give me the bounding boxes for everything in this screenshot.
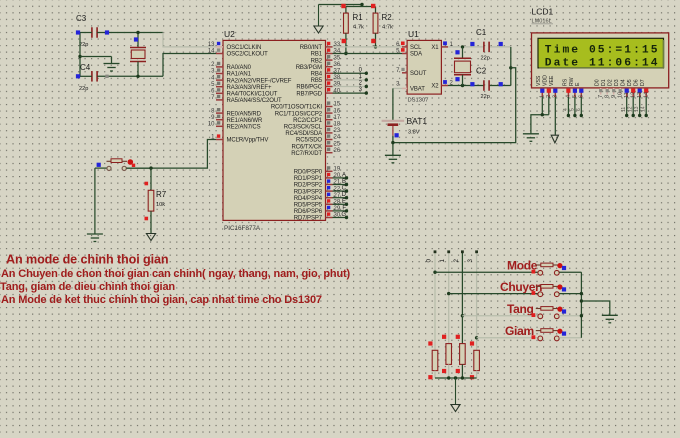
U2 pin 20 RD1/PSP1	[326, 177, 333, 179]
svg-text:An Mode de ket thuc chinh thoi: An Mode de ket thuc chinh thoi gian, cap…	[1, 294, 322, 306]
svg-text:4.7k: 4.7k	[382, 25, 393, 31]
ground VEE (arrow)	[551, 135, 558, 143]
wire MCLR net	[126, 140, 216, 169]
wire button Giam to rail	[559, 337, 581, 339]
svg-text:RC3/SCK/SCL: RC3/SCK/SCL	[284, 125, 323, 131]
U2 pin 8 RE0/AN5/RD	[216, 112, 223, 114]
svg-text:14: 14	[641, 106, 647, 112]
U2 pin 38 RB5	[326, 79, 333, 81]
svg-text:RB6/PGC: RB6/PGC	[296, 85, 322, 91]
U2 pin 37 RB4	[326, 72, 333, 74]
wire row to button Mode	[435, 271, 538, 273]
svg-text:D4: D4	[621, 79, 627, 86]
svg-text:RD3/PSP3: RD3/PSP3	[294, 189, 323, 195]
wire column net 3	[476, 252, 478, 351]
svg-text:VBAT: VBAT	[410, 87, 425, 93]
wire row to button Tang	[462, 315, 538, 317]
wire rail to ground	[581, 301, 609, 315]
svg-text:X1: X1	[431, 45, 439, 51]
ground below resistors (arrow)	[455, 378, 457, 405]
wire column net 2	[461, 252, 463, 344]
svg-text:RE2/AN7/CS: RE2/AN7/CS	[227, 125, 261, 131]
svg-text:R1: R1	[353, 13, 364, 22]
U2 pin 22 RD3/PSP3	[326, 190, 333, 192]
U2 pin 4 RA2/AN2/VREF-/CVREF	[216, 79, 223, 81]
svg-text:0: 0	[425, 259, 432, 263]
ground below LCD	[523, 133, 539, 135]
svg-text:R2: R2	[382, 13, 393, 22]
svg-text:10k: 10k	[156, 202, 165, 208]
wire button Mode to rail	[559, 271, 581, 273]
op-amp U1 DS1307 body	[407, 40, 441, 94]
svg-text:11: 11	[621, 107, 627, 112]
node squares around crystal	[470, 42, 474, 46]
svg-text:RA2/AN2/VREF-/CVREF: RA2/AN2/VREF-/CVREF	[227, 78, 292, 84]
wire VSS/VDD to ground	[531, 115, 549, 134]
wire button Tang to rail	[559, 315, 581, 317]
battery BAT1	[382, 120, 405, 122]
wire to U2 OSC2	[163, 54, 216, 77]
wire RD5 to net E	[333, 203, 347, 205]
wire RD3 to net C	[333, 190, 347, 192]
U2 pin 7 RA5/AN4/SS/C2OUT	[216, 99, 223, 101]
wire LCD VDD down	[548, 97, 550, 115]
resistor pull-down 1	[432, 350, 438, 370]
svg-text:C4: C4	[80, 63, 91, 72]
U2 pin 1 MCLR/Vpp/THV	[216, 139, 223, 141]
svg-text:13: 13	[634, 106, 640, 112]
svg-text:C1: C1	[476, 28, 487, 37]
resistor pull-down 3	[460, 344, 466, 365]
LCD screen	[538, 38, 664, 68]
svg-text:3: 3	[467, 259, 474, 263]
svg-text:RB4: RB4	[311, 72, 323, 78]
svg-text:D: D	[342, 192, 347, 198]
wire RD4 to net D	[333, 197, 347, 199]
svg-text:RE0/AN5/RD: RE0/AN5/RD	[227, 111, 262, 117]
svg-text:RC1/T1OSI/CCP2: RC1/T1OSI/CCP2	[275, 111, 323, 117]
svg-text:RA1/AN1: RA1/AN1	[227, 72, 252, 78]
U2 pin 13 OSC1/CLKIN	[216, 46, 223, 48]
svg-text:D1: D1	[601, 79, 607, 86]
svg-text:15: 15	[334, 102, 341, 108]
svg-text:RC0/T1OSO/T1CKI: RC0/T1OSO/T1CKI	[271, 105, 323, 111]
svg-text:RW: RW	[569, 77, 575, 86]
wire LCD VEE down	[554, 97, 556, 135]
svg-text:RB5: RB5	[311, 78, 323, 84]
svg-text:8: 8	[604, 95, 610, 98]
svg-text:E: E	[342, 199, 346, 205]
wire top rail	[319, 5, 363, 7]
push-button Giam	[538, 336, 543, 341]
resistor pull-down 2	[446, 344, 452, 365]
svg-text:RD7/PSP7: RD7/PSP7	[294, 216, 323, 222]
resistor pull-down 4	[474, 350, 480, 370]
node state squares	[76, 30, 80, 34]
svg-text:An mode de chinh thoi gian: An mode de chinh thoi gian	[6, 253, 169, 267]
ground below reset button	[87, 233, 103, 235]
wire X2 row	[448, 85, 484, 87]
U2 pin 35 RB2	[326, 59, 333, 61]
wire right rail	[580, 272, 582, 338]
svg-text:22p: 22p	[481, 94, 490, 100]
svg-text:23: 23	[334, 128, 341, 134]
svg-text:22p: 22p	[79, 86, 88, 92]
svg-text:RD0/PSP0: RD0/PSP0	[294, 170, 323, 176]
U2 pin 17 RC2/CCP1	[326, 119, 333, 121]
wire column net 0	[434, 252, 436, 351]
wire LCD 5 down	[574, 97, 576, 116]
wire LCD 4 down	[567, 97, 569, 116]
svg-text:17: 17	[334, 115, 341, 121]
ground right of buttons	[602, 314, 618, 316]
svg-text:VDD: VDD	[543, 75, 549, 86]
svg-text:RB3/PGM: RB3/PGM	[296, 65, 322, 71]
push-button Mode	[538, 270, 543, 275]
svg-text:9: 9	[611, 95, 617, 98]
svg-text:BAT1: BAT1	[407, 116, 428, 126]
wire RB4 to net 0	[333, 72, 367, 74]
U2 pin 21 RD2/PSP2	[326, 184, 333, 186]
svg-text:D6: D6	[634, 79, 640, 86]
svg-text:Time 05:=1:15: Time 05:=1:15	[545, 44, 660, 56]
svg-text:Tang, giam de dieu chinh thoi: Tang, giam de dieu chinh thoi gian	[0, 281, 175, 293]
U1 pin 5 SDA	[402, 53, 407, 55]
wire RB7 to net 3	[333, 92, 367, 94]
svg-text:D7: D7	[640, 79, 646, 86]
svg-text:16: 16	[334, 108, 341, 114]
U2 pin 27 RD4/PSP4	[326, 197, 333, 199]
svg-text:OSC2/CLKOUT: OSC2/CLKOUT	[227, 52, 269, 58]
crystal X1 (main)	[137, 33, 139, 48]
U2 pin 39 RB6/PGC	[326, 86, 333, 88]
svg-text:RC6/TX/CK: RC6/TX/CK	[292, 144, 323, 150]
svg-text:X2: X2	[431, 84, 439, 90]
svg-text:3.8V: 3.8V	[408, 130, 420, 136]
svg-text:RB0/INT: RB0/INT	[300, 45, 323, 51]
U2 pin 33 RB0/INT	[326, 46, 333, 48]
U2 pin 30 RD7/PSP7	[326, 217, 333, 219]
svg-text:LCD1: LCD1	[532, 7, 554, 17]
svg-text:B: B	[342, 179, 346, 185]
wire R1 to SDA row	[345, 33, 347, 53]
svg-text:2: 2	[453, 259, 460, 263]
svg-text:RB1: RB1	[311, 52, 323, 58]
wire right rail to ground net	[510, 47, 512, 86]
svg-text:13: 13	[208, 42, 215, 48]
ground near C4	[104, 63, 120, 65]
LCD1 LM016L body	[532, 33, 669, 88]
wire row to button Chuyen	[449, 293, 538, 295]
U2 pin 19 RD0/PSP0	[326, 170, 333, 172]
svg-text:Chuyen: Chuyen	[500, 280, 542, 294]
U2 pin 36 RB3/PGM	[326, 66, 333, 68]
U2 pin 2 RA0/AN0	[216, 66, 223, 68]
resistor R2	[375, 7, 377, 14]
svg-text:C2: C2	[476, 67, 487, 76]
U2 pin 29 RD6/PSP6	[326, 210, 333, 212]
U2 pin 14 OSC2/CLKOUT	[216, 53, 223, 55]
ground below R7 (arrow)	[150, 232, 152, 235]
U2 pin 28 RD5/PSP5	[326, 203, 333, 205]
U1 pin 7 SOUT	[402, 72, 407, 74]
svg-text:Giam: Giam	[505, 324, 534, 338]
wire LCD 13 down	[639, 97, 641, 116]
svg-text:D0: D0	[595, 79, 601, 86]
svg-text:U1: U1	[408, 29, 419, 39]
svg-text:14: 14	[208, 49, 215, 55]
ground terminal top (arrow)	[318, 5, 320, 27]
U1 pin 1 X1	[441, 46, 448, 48]
U1 pin 2 X2	[441, 85, 448, 87]
svg-text:7: 7	[598, 95, 604, 98]
U2 pin 15 RC0/T1OSO/T1CKI	[326, 106, 333, 108]
wire RD2 to net B	[333, 184, 347, 186]
wire LCD VSS down	[541, 97, 543, 115]
resistor R7	[150, 168, 152, 190]
U2 pin 26 RC7/RX/DT	[326, 152, 333, 154]
U2 pin 24 RC5/SDO	[326, 139, 333, 141]
svg-text:18: 18	[334, 122, 341, 128]
svg-text:RD6/PSP6: RD6/PSP6	[294, 209, 323, 215]
wire RD7 to net G	[333, 217, 347, 219]
svg-text:DS1307: DS1307	[408, 98, 429, 104]
U2 pin 3 RA1/AN1	[216, 73, 223, 75]
svg-text:G: G	[341, 212, 346, 218]
svg-text:Date 11:06:14: Date 11:06:14	[545, 58, 660, 70]
U2 pin 25 RC6/TX/CK	[326, 145, 333, 147]
U1 pin 6 SCL	[402, 46, 407, 48]
svg-text:D5: D5	[627, 79, 633, 86]
svg-text:VSS: VSS	[536, 75, 542, 86]
svg-text:RE1/AN6/WR: RE1/AN6/WR	[227, 118, 263, 124]
svg-text:PIC16F877A: PIC16F877A	[224, 225, 261, 232]
wire RD1 to net A	[333, 177, 347, 179]
svg-text:10: 10	[617, 92, 623, 98]
svg-text:6: 6	[576, 108, 582, 111]
wire SDA net U2-U1	[333, 53, 403, 55]
U2 pin 34 RB1	[326, 53, 333, 55]
svg-text:SCL: SCL	[410, 45, 422, 51]
wire resistor bottoms	[435, 377, 477, 379]
U1 pin 3 VBAT	[402, 87, 407, 89]
svg-text:19: 19	[334, 167, 341, 173]
svg-text:RA4/T0CKI/C1OUT: RA4/T0CKI/C1OUT	[227, 92, 278, 98]
svg-text:SDA: SDA	[410, 52, 422, 58]
svg-text:35: 35	[334, 55, 341, 61]
wire RD6 to net F	[333, 210, 347, 212]
wire RB5 to net 1	[333, 79, 367, 81]
svg-text:MCLR/Vpp/THV: MCLR/Vpp/THV	[227, 138, 269, 144]
svg-text:1: 1	[439, 259, 446, 263]
wire node OSC2 bottom	[80, 75, 92, 77]
U2 pin 18 RC3/SCK/SCL	[326, 125, 333, 127]
svg-text:E: E	[575, 82, 581, 86]
svg-text:OSC1/CLKIN: OSC1/CLKIN	[227, 45, 262, 51]
U2 pin 6 RA4/T0CKI/C1OUT	[216, 92, 223, 94]
U2 pin 16 RC1/T1OSI/CCP2	[326, 112, 333, 114]
svg-text:5: 5	[569, 108, 575, 111]
svg-text:RS: RS	[562, 78, 568, 86]
svg-text:Tang: Tang	[507, 302, 534, 316]
wire LCD 6 down	[580, 97, 582, 116]
svg-text:RB7/PGD: RB7/PGD	[296, 91, 322, 97]
wire column net 1	[448, 252, 450, 344]
push-button Tang	[538, 314, 543, 319]
svg-text:F: F	[342, 205, 346, 211]
wire left vertical C3-C4	[79, 33, 81, 77]
svg-text:C: C	[342, 186, 347, 192]
svg-text:R7: R7	[156, 190, 167, 199]
wire SCL net U2-U1	[333, 46, 403, 48]
svg-text:RA0/AN0: RA0/AN0	[227, 65, 252, 71]
wire LCD 12 down	[632, 97, 634, 116]
svg-text:26: 26	[334, 148, 341, 154]
U2 pin 9 RE1/AN6/WR	[216, 119, 223, 121]
wire button Chuyen to rail	[559, 293, 581, 295]
svg-text:A: A	[342, 172, 346, 178]
U2 pin 40 RB7/PGD	[326, 92, 333, 94]
ground below BAT1	[385, 154, 401, 156]
svg-text:VEE: VEE	[549, 75, 555, 86]
svg-text:RC7/RX/DT: RC7/RX/DT	[291, 151, 322, 157]
svg-text:24: 24	[334, 135, 341, 141]
wire X1 row	[448, 46, 484, 48]
svg-text:RD5/PSP5: RD5/PSP5	[294, 203, 323, 209]
wire row to button Giam	[477, 337, 538, 339]
push-button Chuyen	[538, 292, 543, 297]
svg-text:C3: C3	[76, 14, 87, 23]
svg-text:12: 12	[628, 106, 634, 112]
svg-text:An Chuyen de chon thoi gian ca: An Chuyen de chon thoi gian can chinh( n…	[1, 268, 351, 280]
U2 pin 10 RE2/AN7/CS	[216, 125, 223, 127]
svg-text:RD1/PSP1: RD1/PSP1	[294, 176, 323, 182]
wire RB6 to net 2	[333, 86, 367, 88]
op-amp U2 PIC16F877A body	[223, 40, 326, 220]
svg-text:RD2/PSP2: RD2/PSP2	[294, 183, 323, 189]
wire LCD 11 down	[626, 97, 628, 116]
wire to ground left	[94, 168, 96, 234]
wire node OSC1 top	[80, 32, 92, 34]
svg-text:U2: U2	[224, 29, 235, 39]
svg-text:36: 36	[334, 62, 341, 68]
svg-text:RA5/AN4/SS/C2OUT: RA5/AN4/SS/C2OUT	[227, 98, 283, 104]
crystal X2 (RTC)	[462, 47, 464, 58]
svg-text:RB2: RB2	[311, 58, 323, 64]
svg-text:RC4/SDI/SDA: RC4/SDI/SDA	[285, 131, 322, 137]
wire R2 to SCL row	[375, 33, 377, 47]
wire to ground	[80, 56, 112, 58]
svg-text:RC2/CCP1: RC2/CCP1	[293, 118, 323, 124]
wire LCD 14 down	[645, 97, 647, 116]
U2 pin 5 RA3/AN3/VREF+	[216, 86, 223, 88]
svg-text:RD4/PSP4: RD4/PSP4	[294, 196, 323, 202]
U2 pin 23 RC4/SDI/SDA	[326, 132, 333, 134]
svg-text:D3: D3	[614, 79, 620, 86]
svg-text:4: 4	[563, 108, 569, 111]
svg-text:22p: 22p	[481, 56, 490, 62]
svg-text:RA3/AN3/VREF+: RA3/AN3/VREF+	[227, 85, 272, 91]
svg-text:SOUT: SOUT	[410, 71, 427, 77]
svg-text:25: 25	[334, 141, 341, 147]
svg-text:10: 10	[208, 122, 215, 128]
wire VBAT to battery	[393, 87, 402, 89]
wire to U2 OSC1	[163, 33, 216, 47]
svg-text:RC5/SDO: RC5/SDO	[296, 138, 322, 144]
svg-text:4.7k: 4.7k	[353, 25, 364, 31]
svg-text:D2: D2	[608, 79, 614, 86]
push-button reset	[95, 167, 107, 169]
resistor R1	[345, 7, 347, 14]
